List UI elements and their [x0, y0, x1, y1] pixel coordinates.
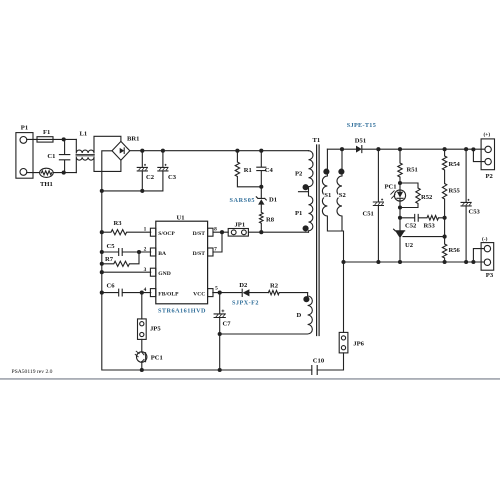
svg-text:R54: R54 — [449, 161, 461, 168]
svg-text:C5: C5 — [107, 243, 116, 250]
svg-text:BR1: BR1 — [127, 136, 139, 143]
svg-text:D2: D2 — [239, 282, 248, 289]
svg-text:C53: C53 — [469, 209, 481, 216]
svg-text:D: D — [297, 312, 302, 319]
svg-text:P1: P1 — [295, 210, 302, 217]
svg-text:2: 2 — [144, 247, 147, 253]
svg-text:R56: R56 — [449, 247, 461, 254]
svg-text:JP1: JP1 — [235, 222, 246, 229]
svg-text:SJPE-T15: SJPE-T15 — [347, 122, 376, 129]
svg-text:P2: P2 — [486, 173, 494, 180]
svg-text:JP5: JP5 — [150, 326, 161, 333]
svg-text:C3: C3 — [168, 174, 177, 181]
svg-text:R1: R1 — [244, 167, 252, 174]
svg-text:T1: T1 — [313, 137, 321, 144]
svg-text:R8: R8 — [266, 217, 275, 224]
svg-text:8: 8 — [214, 227, 217, 233]
svg-text:F1: F1 — [43, 129, 50, 136]
svg-text:5: 5 — [215, 285, 218, 291]
svg-text:C10: C10 — [313, 358, 325, 365]
svg-text:C1: C1 — [47, 153, 55, 160]
svg-text:7: 7 — [214, 247, 217, 253]
svg-text:S/OCP: S/OCP — [158, 231, 175, 237]
svg-text:GND: GND — [158, 271, 170, 277]
svg-text:BA: BA — [158, 251, 166, 257]
svg-text:SJPX-F2: SJPX-F2 — [232, 300, 259, 307]
svg-text:4: 4 — [144, 287, 147, 293]
svg-text:(+): (+) — [484, 131, 491, 138]
svg-text:D1: D1 — [269, 197, 277, 204]
svg-text:P1: P1 — [21, 125, 28, 132]
svg-text:VCC: VCC — [193, 292, 205, 298]
svg-text:D/ST: D/ST — [193, 251, 206, 257]
svg-text:FB/OLP: FB/OLP — [158, 292, 179, 298]
svg-text:C6: C6 — [107, 283, 116, 290]
svg-text:P2: P2 — [295, 170, 303, 177]
svg-text:JP6: JP6 — [353, 341, 364, 348]
svg-text:U2: U2 — [405, 242, 414, 249]
svg-text:R53: R53 — [424, 223, 436, 230]
svg-text:STR6A161HVD: STR6A161HVD — [158, 308, 206, 315]
svg-text:R7: R7 — [105, 256, 114, 263]
svg-text:C51: C51 — [363, 211, 374, 218]
svg-text:C7: C7 — [223, 321, 232, 328]
svg-text:SARS05: SARS05 — [230, 197, 255, 204]
svg-text:R3: R3 — [114, 220, 123, 227]
svg-text:S2: S2 — [339, 192, 347, 199]
svg-text:C4: C4 — [265, 167, 274, 174]
svg-text:R51: R51 — [407, 167, 418, 174]
svg-text:D51: D51 — [355, 137, 366, 144]
svg-text:L1: L1 — [80, 130, 88, 137]
svg-text:P3: P3 — [486, 272, 494, 279]
svg-text:C52: C52 — [405, 223, 417, 230]
svg-text:PC1: PC1 — [151, 355, 163, 362]
svg-text:1: 1 — [144, 227, 147, 233]
svg-text:S1: S1 — [324, 192, 331, 199]
svg-text:PC1: PC1 — [385, 183, 397, 190]
svg-text:C2: C2 — [146, 174, 155, 181]
svg-text:R55: R55 — [449, 187, 461, 194]
svg-text:R52: R52 — [421, 194, 433, 201]
svg-text:R2: R2 — [270, 283, 279, 290]
svg-text:TH1: TH1 — [40, 181, 53, 188]
svg-text:D/ST: D/ST — [193, 231, 206, 237]
svg-text:U1: U1 — [177, 214, 185, 221]
svg-text:PSA50119 rev 2.0: PSA50119 rev 2.0 — [12, 369, 53, 375]
svg-text:(-): (-) — [482, 235, 488, 242]
svg-text:3: 3 — [144, 267, 147, 273]
